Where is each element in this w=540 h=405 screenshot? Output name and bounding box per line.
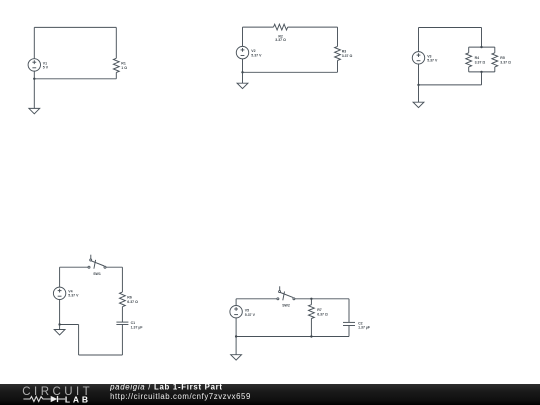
wire top of circuit 3 xyxy=(419,27,482,29)
svg-text:3.37 Ω: 3.37 Ω xyxy=(475,60,486,64)
capacitor C1 xyxy=(116,322,128,324)
wire bottom of circuit 1 xyxy=(34,78,116,80)
svg-text:R3: R3 xyxy=(342,50,347,54)
resistor R5 xyxy=(492,47,498,72)
svg-text:padeigia / Lab 1-First Part: padeigia / Lab 1-First Part xyxy=(109,383,223,392)
wire V5 bottom lead xyxy=(235,318,237,337)
wire V3 top lead xyxy=(418,28,420,52)
resistor R3 xyxy=(335,27,341,72)
svg-text:SW1: SW1 xyxy=(93,272,101,276)
wire V3 bottom lead xyxy=(418,64,420,85)
wire left riser circuit 4 xyxy=(78,325,80,356)
wire bottom of circuit 3 xyxy=(419,84,482,86)
wire top right segment circuit 2 xyxy=(288,26,338,28)
resistor R2 xyxy=(274,24,288,30)
svg-text:SW2: SW2 xyxy=(282,303,290,307)
voltage source V2 xyxy=(236,46,248,58)
wire ground stem circuit 5 xyxy=(235,337,237,355)
switch SW1 xyxy=(88,255,106,269)
junction node R7 top xyxy=(310,298,312,300)
ground circuit 4 xyxy=(54,330,65,335)
wire parallel top rail xyxy=(469,46,495,48)
svg-text:6.37 Ω: 6.37 Ω xyxy=(127,300,138,304)
wire top left segment circuit 5 xyxy=(236,298,277,300)
svg-text:R4: R4 xyxy=(475,56,480,60)
wire V5 top lead xyxy=(235,299,237,306)
svg-text:5.37 V: 5.37 V xyxy=(68,294,79,298)
svg-text:R1: R1 xyxy=(121,61,126,65)
svg-text:V3: V3 xyxy=(427,54,431,58)
junction node circuit 1 xyxy=(33,78,35,80)
wire right drop to parallel pair xyxy=(481,28,483,48)
resistor R1 xyxy=(113,27,119,78)
ground circuit 3 xyxy=(413,102,424,107)
wire V4 bottom lead xyxy=(59,300,61,325)
logo diode symbol xyxy=(51,396,58,402)
ground circuit 5 xyxy=(231,355,242,360)
junction node circuit 3 xyxy=(417,84,419,86)
capacitor C2 xyxy=(343,322,355,325)
resistor R7 xyxy=(309,299,315,337)
voltage source V1 xyxy=(28,59,40,71)
wire V2 top lead xyxy=(242,27,244,46)
wire return to V4 xyxy=(60,324,79,326)
svg-text:LAB: LAB xyxy=(65,394,91,404)
junction node circuit 2 xyxy=(241,71,243,73)
svg-text:5.37 V: 5.37 V xyxy=(245,313,256,317)
ground circuit 1 xyxy=(29,108,40,113)
svg-text:1.37 µF: 1.37 µF xyxy=(358,326,371,330)
svg-text:R7: R7 xyxy=(317,308,322,312)
wire top of circuit 1 xyxy=(34,26,116,28)
svg-text:V4: V4 xyxy=(68,289,72,293)
wire top left segment circuit 4 xyxy=(60,266,88,268)
wire bottom of circuit 2 xyxy=(243,71,338,73)
svg-text:5 V: 5 V xyxy=(43,66,49,70)
svg-text:3.37 Ω: 3.37 Ω xyxy=(342,54,353,58)
wire parallel bottom rail xyxy=(469,71,495,73)
svg-text:6.37 Ω: 6.37 Ω xyxy=(317,312,328,316)
wire ground stem circuit 1 xyxy=(33,79,35,109)
wire ground stem circuit 2 xyxy=(242,72,244,83)
wire V1 bottom lead xyxy=(33,71,35,79)
wire top left segment circuit 2 xyxy=(243,26,274,28)
svg-text:3.37 Ω: 3.37 Ω xyxy=(500,60,511,64)
wire V2 bottom lead xyxy=(242,59,244,73)
junction node parallel bottom xyxy=(480,71,482,73)
wire bottom of circuit 4 xyxy=(79,354,123,356)
wire right drop to bottom xyxy=(481,72,483,85)
svg-text:3.37 Ω: 3.37 Ω xyxy=(275,38,286,42)
junction node R7 bottom xyxy=(310,335,312,337)
svg-text:1.37 µF: 1.37 µF xyxy=(131,325,144,329)
svg-text:R5: R5 xyxy=(500,56,505,60)
wire C1 bottom lead xyxy=(121,325,123,356)
svg-text:C1: C1 xyxy=(131,321,136,325)
svg-text:V5: V5 xyxy=(245,308,249,312)
wire R6 to C1 xyxy=(121,307,123,322)
wire C2 bottom lead xyxy=(348,326,350,337)
junction node circuit 4 xyxy=(58,323,60,325)
wire bottom of circuit 5 xyxy=(236,336,349,338)
junction node circuit 5 xyxy=(235,335,237,337)
logo resistor squiggle xyxy=(23,397,50,402)
svg-text:http://circuitlab.com/cnfy7zvz: http://circuitlab.com/cnfy7zvzvx659 xyxy=(110,392,251,401)
wire V4 top lead xyxy=(59,267,61,287)
wire top right segment circuit 5 xyxy=(295,298,349,300)
junction node parallel top xyxy=(480,46,482,48)
svg-text:1 Ω: 1 Ω xyxy=(121,66,127,70)
svg-text:R6: R6 xyxy=(127,295,132,299)
resistor R4 xyxy=(466,47,472,72)
svg-text:C2: C2 xyxy=(358,321,363,325)
wire top right segment circuit 4 xyxy=(106,266,122,268)
voltage source V5 xyxy=(230,306,242,318)
svg-text:5.37 V: 5.37 V xyxy=(427,59,438,63)
resistor R6 xyxy=(120,292,126,307)
ground circuit 2 xyxy=(237,83,248,88)
wire V1 top lead xyxy=(33,27,35,58)
wire C2 top lead xyxy=(348,299,350,323)
switch SW2 xyxy=(277,286,295,300)
wire right drop to R6 xyxy=(121,267,123,292)
svg-text:5.37 V: 5.37 V xyxy=(251,54,262,58)
svg-text:V2: V2 xyxy=(251,49,255,53)
wire ground stem circuit 3 xyxy=(418,85,420,102)
voltage source V4 xyxy=(53,287,65,299)
wire ground stem circuit 4 xyxy=(59,325,61,330)
voltage source V3 xyxy=(412,52,424,64)
